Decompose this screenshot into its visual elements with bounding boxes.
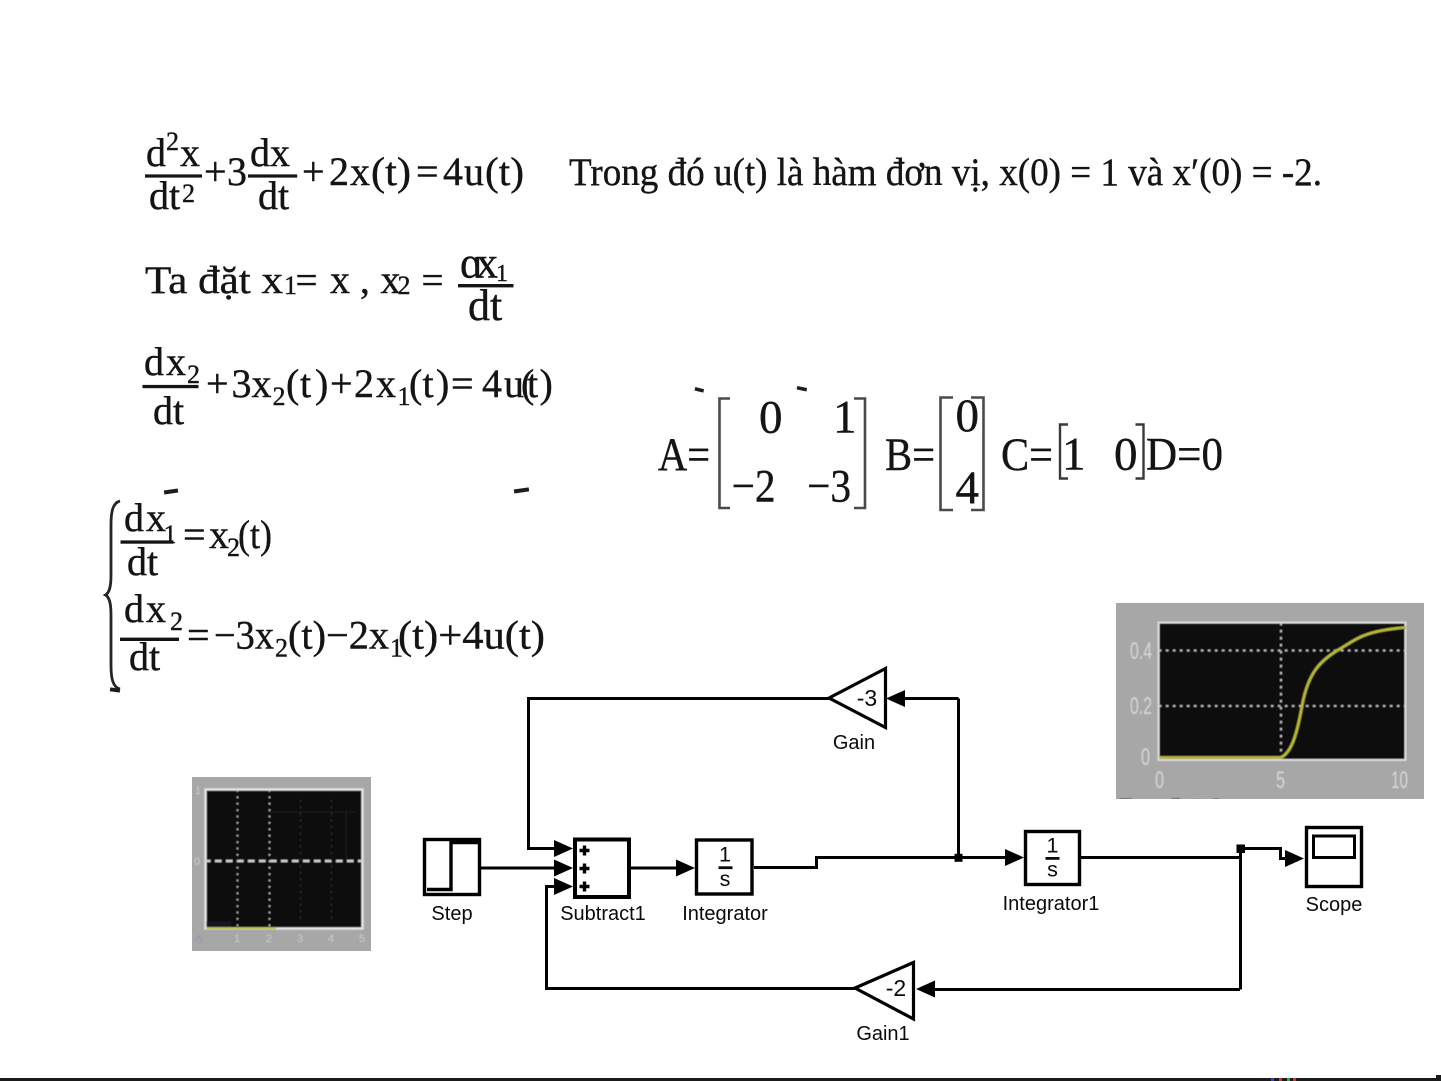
svg-text:+: +	[302, 149, 325, 194]
svg-text:10: 10	[1391, 767, 1408, 794]
svg-text:0: 0	[1141, 744, 1150, 771]
Step icon waveform	[427, 843, 478, 890]
svg-text:4: 4	[443, 149, 463, 194]
tiny color dots on bottom line	[1271, 1075, 1441, 1081]
svg-text:s: s	[720, 867, 731, 891]
Scope screen inner rect	[1314, 836, 1355, 858]
svg-text:=: =	[416, 149, 439, 194]
svg-text:1: 1	[833, 392, 857, 444]
svg-text:dt: dt	[468, 281, 502, 330]
svg-text:dx: dx	[250, 130, 290, 175]
dotted gridline y=0.4	[1159, 650, 1405, 652]
svg-text:d: d	[124, 586, 144, 631]
svg-text:1: 1	[164, 520, 177, 549]
svg-text:,: ,	[360, 259, 370, 302]
svg-text:A=: A=	[658, 429, 710, 481]
svg-text:0: 0	[759, 392, 783, 444]
svg-text:−3: −3	[807, 461, 851, 513]
Integrator block	[697, 840, 753, 894]
arrow into Scope	[1285, 850, 1304, 867]
svg-text:2: 2	[275, 634, 288, 663]
svg-text:1: 1	[1047, 834, 1059, 858]
equation dx2/dt + 3x2(t) + 2x1(t) = 4u(t)	[143, 339, 553, 433]
wire right to Gain input	[903, 697, 959, 700]
svg-text:Integrator1: Integrator1	[1003, 893, 1100, 915]
svg-text:Ta đặt x: Ta đặt x	[145, 259, 284, 302]
svg-text:D=0: D=0	[1146, 429, 1223, 481]
arrow into Subtract1 port 3	[554, 878, 573, 895]
yellow trace at bottom left	[206, 927, 276, 929]
svg-text:Scope: Scope	[1306, 894, 1363, 916]
svg-text:): )	[315, 361, 328, 406]
stub wire from junction2 to Scope	[1241, 849, 1288, 859]
Subtract1 block	[575, 840, 629, 898]
svg-text:x: x	[350, 149, 370, 194]
svg-text:C=: C=	[1001, 429, 1053, 481]
svg-text:x: x	[146, 586, 166, 631]
wire Step to Subtract1	[481, 867, 556, 870]
system brace {	[106, 501, 121, 689]
bottom feedback wire to Gain1	[934, 988, 1240, 991]
Gain1 triangle	[855, 963, 914, 1020]
faint vertical gridline 4	[331, 800, 333, 920]
svg-text:2: 2	[166, 127, 179, 156]
arrow into Integrator1	[1005, 849, 1024, 866]
faint inner box artifact	[268, 812, 356, 860]
dashed center line	[204, 860, 364, 862]
artifact dash above system line 1	[164, 489, 178, 495]
svg-text:0.4: 0.4	[1130, 638, 1152, 665]
matrix line A B C D	[658, 390, 1223, 514]
svg-text:0: 0	[1114, 429, 1138, 481]
wire Subtract1 to Integrator	[631, 867, 679, 870]
svg-text:2: 2	[187, 360, 200, 389]
svg-text:d: d	[144, 339, 164, 384]
svg-text:-3: -3	[857, 685, 877, 711]
svg-text:=: =	[183, 512, 206, 557]
svg-text:+: +	[204, 149, 227, 194]
svg-text:4: 4	[482, 361, 502, 406]
svg-text:dt: dt	[127, 539, 158, 584]
svg-text:dt: dt	[129, 634, 160, 679]
svg-text:4: 4	[328, 933, 334, 945]
svg-text:Integrator: Integrator	[682, 903, 768, 925]
svg-text:2: 2	[170, 607, 183, 636]
Gain triangle	[829, 669, 886, 728]
bluish smudge	[206, 922, 231, 927]
svg-text:x: x	[166, 339, 186, 384]
svg-text:3: 3	[227, 149, 247, 194]
svg-text:Trong đó u(t) là hàm đơn vị, x: Trong đó u(t) là hàm đơn vị, x(0) = 1 và…	[569, 151, 1322, 194]
svg-text:3: 3	[232, 361, 252, 406]
svg-text:x: x	[252, 361, 272, 406]
svg-text:2: 2	[266, 933, 272, 945]
Subtract1 plus sign 2	[580, 864, 590, 874]
svg-text:B=: B=	[885, 429, 935, 481]
svg-text:x: x	[209, 512, 229, 557]
svg-text:Step: Step	[431, 903, 472, 925]
svg-text:(t): (t)	[485, 149, 524, 194]
Integrator 1/s label	[719, 843, 733, 892]
bottom border line	[0, 1078, 1441, 1081]
arrow into Integrator	[676, 860, 695, 877]
svg-text:(t): (t)	[238, 512, 272, 557]
svg-text:(t)−2x: (t)−2x	[288, 613, 389, 658]
svg-text:x: x	[180, 130, 200, 175]
svg-text:1: 1	[195, 785, 201, 797]
artifact dash left above matrix A	[695, 387, 705, 393]
svg-text:0.2: 0.2	[1130, 693, 1152, 720]
svg-text:2: 2	[182, 179, 195, 208]
svg-text:Gain1: Gain1	[856, 1023, 909, 1045]
wire Integrator1 to junction2	[1080, 856, 1240, 859]
svg-text:1: 1	[234, 933, 240, 945]
svg-text:1: 1	[719, 843, 731, 867]
svg-text:0: 0	[1155, 767, 1164, 794]
svg-text:+: +	[206, 361, 229, 406]
svg-text:1: 1	[1062, 429, 1086, 481]
Scope block	[1307, 828, 1362, 887]
arrow into Gain (pointing left)	[886, 690, 905, 707]
svg-text:dt: dt	[258, 173, 289, 218]
svg-text:u: u	[464, 149, 484, 194]
svg-text:+: +	[330, 361, 353, 406]
Subtract1 plus sign 1	[580, 846, 590, 856]
arrow into Subtract1 port 1	[554, 840, 573, 857]
artifact dash below brace	[110, 687, 120, 692]
svg-text:(t): (t)	[371, 149, 411, 194]
right scope plot screenshot image	[1116, 603, 1424, 814]
Step block	[425, 840, 480, 895]
artifact dash right of system line 1	[514, 487, 529, 493]
equation d2x/dt2 + 3dx/dt + 2x(t) = 4u(t)	[145, 127, 524, 218]
svg-text:s: s	[1047, 858, 1058, 882]
system line 1: dx1/dt = x2(t)	[121, 495, 273, 584]
svg-text:): )	[436, 361, 449, 406]
svg-text:dt: dt	[149, 173, 180, 218]
svg-text:-2: -2	[886, 975, 906, 1001]
svg-text:−3x: −3x	[214, 613, 274, 658]
svg-text:t: t	[300, 361, 311, 406]
svg-text:5: 5	[1276, 767, 1285, 794]
svg-text:2: 2	[329, 149, 349, 194]
svg-text:−2: −2	[732, 461, 776, 513]
svg-text:-5: -5	[193, 934, 203, 946]
left scope screenshot image	[192, 777, 371, 951]
faint vertical gridline 3	[300, 800, 302, 920]
svg-text:2: 2	[273, 382, 286, 411]
dotted vertical gridline x=5	[1280, 623, 1282, 760]
svg-text:=: =	[451, 361, 474, 406]
svg-text:(: (	[286, 361, 299, 406]
svg-text:): )	[540, 361, 553, 406]
dotted gridline y=0.2	[1159, 705, 1405, 707]
svg-text:(t)+4u(t): (t)+4u(t)	[398, 613, 545, 658]
svg-text:x: x	[376, 361, 396, 406]
svg-text:2: 2	[398, 271, 411, 300]
artifact dash right above matrix A	[797, 386, 808, 392]
svg-text:3: 3	[297, 933, 303, 945]
wire from Gain1 output up into Subtract1 port 3	[547, 887, 856, 989]
svg-text:Gain: Gain	[833, 732, 875, 754]
Integrator1 1/s label	[1046, 834, 1060, 882]
svg-text:2: 2	[354, 361, 374, 406]
vertical feedback wire down	[1239, 849, 1242, 990]
dotted vertical gridline 1	[237, 790, 239, 928]
arrow into Gain1 (pointing left)	[916, 981, 935, 998]
wire from Gain output down into Subtract1 port 1	[529, 699, 830, 849]
svg-text:=: =	[187, 613, 210, 658]
svg-text:d: d	[146, 130, 166, 175]
svg-text:=: =	[422, 259, 444, 302]
vertical wire from Gain line down to junction	[957, 699, 960, 858]
junction2 square dot	[1237, 845, 1246, 854]
svg-text:t: t	[527, 361, 538, 406]
svg-text:d: d	[124, 495, 144, 540]
svg-text:x: x	[330, 257, 350, 302]
line Ta dat x1 = x , x2 = ax1/dt	[145, 239, 514, 331]
Subtract1 plus sign 3	[580, 882, 590, 892]
Integrator1 block	[1026, 832, 1080, 885]
svg-text:5: 5	[359, 933, 365, 945]
dotted vertical gridline 2	[269, 790, 271, 928]
system line 2: dx2/dt = -3x2(t) - 2x1(t) + 4u(t)	[120, 586, 545, 679]
svg-text:t: t	[423, 361, 434, 406]
yellow step-response curve	[1159, 628, 1406, 758]
arrow into Subtract1 port 2	[554, 860, 573, 877]
svg-text:(: (	[409, 361, 422, 406]
svg-text:=: =	[296, 259, 318, 302]
svg-text:0: 0	[194, 856, 200, 868]
junction dot on Integrator wire	[955, 854, 963, 862]
wire Integrator to Integrator1 with jog	[754, 858, 1007, 868]
svg-text:Subtract1: Subtract1	[560, 903, 646, 925]
svg-text:4: 4	[956, 462, 980, 514]
svg-text:dt: dt	[153, 388, 184, 433]
